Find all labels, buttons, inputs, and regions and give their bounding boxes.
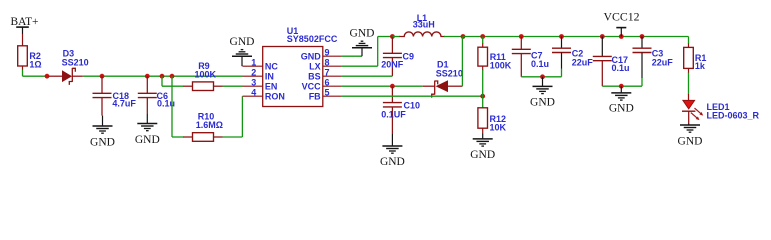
LED LED1 — [682, 94, 760, 124]
junction C2 — [559, 34, 564, 39]
ground C6 — [135, 114, 160, 146]
svg-text:33uH: 33uH — [413, 20, 435, 30]
svg-text:3: 3 — [251, 77, 256, 87]
svg-text:GND: GND — [301, 52, 322, 62]
svg-text:100K: 100K — [195, 69, 217, 79]
junction C18 — [100, 74, 105, 79]
svg-text:1Ω: 1Ω — [29, 59, 41, 69]
svg-text:GND: GND — [380, 156, 405, 168]
junction ground C17/C3 — [619, 84, 624, 89]
resistor R2 — [18, 46, 42, 70]
svg-text:GND: GND — [90, 136, 115, 148]
junction R10 tap — [170, 74, 175, 79]
junction ground C7/C2 — [540, 74, 545, 79]
pin 8 LX — [309, 57, 342, 71]
svg-text:GND: GND — [350, 28, 375, 40]
svg-text:1k: 1k — [695, 61, 706, 71]
capacitor C7 — [512, 37, 549, 77]
wire R2 to D3 — [23, 70, 49, 77]
junction node R2/D3 — [45, 74, 50, 79]
wire input bus — [83, 75, 243, 77]
junction C3 — [640, 34, 645, 39]
svg-text:100K: 100K — [490, 60, 512, 70]
pin 7 BS — [308, 67, 342, 81]
ground C10 — [380, 134, 405, 168]
resistor R1 — [684, 44, 707, 74]
svg-text:LX: LX — [309, 62, 321, 72]
svg-text:7: 7 — [324, 67, 329, 77]
capacitor C10 — [381, 86, 420, 134]
svg-text:RON: RON — [265, 92, 285, 102]
wire LX to rail — [342, 37, 393, 67]
svg-text:GND: GND — [609, 103, 634, 115]
wire VCC row — [342, 85, 423, 87]
svg-text:NC: NC — [265, 62, 278, 72]
svg-text:0.1u: 0.1u — [612, 63, 630, 73]
capacitor C9 — [381, 37, 414, 77]
svg-text:SY8502FCC: SY8502FCC — [287, 34, 338, 44]
svg-text:22uF: 22uF — [572, 57, 594, 67]
svg-text:9: 9 — [324, 47, 329, 57]
svg-text:GND: GND — [135, 134, 160, 146]
capacitor C18 — [93, 76, 137, 115]
svg-text:10K: 10K — [490, 122, 507, 132]
svg-text:8: 8 — [324, 57, 329, 67]
ground C7/C2 — [530, 77, 555, 109]
pin 9 GND — [301, 47, 342, 61]
svg-text:SS210: SS210 — [436, 69, 463, 79]
wire bus to R9 — [162, 76, 184, 86]
wire C17 C3 ground row — [602, 85, 642, 87]
junction C17 — [600, 34, 605, 39]
junction C7 — [519, 34, 524, 39]
wire R1 to LED1 — [688, 73, 690, 95]
resistor R10 — [183, 111, 223, 141]
svg-text:VCC: VCC — [302, 82, 322, 92]
svg-text:5: 5 — [324, 87, 329, 97]
svg-text:4: 4 — [251, 87, 256, 97]
capacitor C17 — [593, 37, 630, 87]
pin 4 RON — [243, 87, 285, 101]
svg-text:BS: BS — [308, 72, 321, 82]
junction LX node — [390, 34, 395, 39]
junction FB node — [480, 94, 485, 99]
ground R12 — [470, 134, 495, 162]
svg-text:GND: GND — [678, 136, 703, 148]
svg-text:2: 2 — [251, 67, 256, 77]
wire FB row — [342, 95, 483, 97]
wire D1 to rail — [461, 37, 463, 87]
pin 6 VCC — [302, 77, 342, 91]
wire C7 C2 ground row — [521, 76, 561, 78]
capacitor C6 — [138, 76, 175, 114]
junction VCC12 — [619, 34, 624, 39]
wire rail to R1 — [688, 37, 690, 45]
svg-text:22uF: 22uF — [652, 57, 674, 67]
ground C17/C3 — [609, 86, 634, 114]
svg-text:4.7uF: 4.7uF — [112, 99, 136, 109]
svg-text:1.6MΩ: 1.6MΩ — [196, 120, 223, 130]
inductor L1 33uH — [392, 13, 463, 36]
svg-text:LED-0603_R: LED-0603_R — [707, 111, 760, 121]
svg-text:0.1u: 0.1u — [531, 59, 549, 69]
junction R11 — [480, 34, 485, 39]
wire BS to C9 — [342, 75, 393, 77]
pin 5 FB — [309, 87, 342, 101]
junction R9 tap — [160, 74, 165, 79]
junction C10 — [390, 84, 395, 89]
capacitor C3 — [633, 37, 674, 87]
resistor R9 — [184, 61, 223, 90]
resistor R11 — [478, 37, 512, 71]
diode D1 SS210 — [423, 60, 463, 98]
diode D3 SS210 — [49, 49, 89, 85]
wire R11 to FB — [482, 70, 484, 96]
ground C18 — [90, 116, 115, 149]
ground LED1 — [678, 124, 703, 148]
wire output rail — [463, 36, 689, 38]
svg-text:FB: FB — [309, 92, 321, 102]
pin 1 NC — [243, 57, 279, 71]
wire BAT+ to R2 — [22, 34, 24, 46]
svg-text:GND: GND — [470, 149, 495, 161]
wire R10 to pin RON — [223, 96, 243, 137]
resistor R12 — [478, 96, 507, 133]
pin 3 EN — [243, 77, 278, 91]
junction C6 — [145, 74, 150, 79]
power port VCC12 — [603, 10, 639, 37]
svg-text:0.1UF: 0.1UF — [381, 110, 406, 120]
svg-text:IN: IN — [265, 72, 274, 82]
ground port above U1 right — [350, 28, 375, 57]
wire pin9 to ground — [342, 55, 362, 57]
ground port above U1 left — [230, 36, 255, 56]
wire bus to R10 — [172, 76, 184, 137]
svg-text:GND: GND — [530, 97, 555, 109]
junction L1 output — [461, 34, 466, 39]
svg-text:VCC12: VCC12 — [603, 10, 639, 24]
svg-text:1: 1 — [251, 57, 256, 67]
svg-text:C10: C10 — [404, 101, 421, 111]
svg-text:SS210: SS210 — [62, 57, 89, 67]
svg-text:20NF: 20NF — [381, 60, 404, 70]
op-amp U1 SY8502FCC body — [263, 26, 338, 107]
svg-text:GND: GND — [230, 36, 255, 48]
wire R9 to pin EN — [223, 85, 243, 87]
wire GND to pin 1 — [241, 56, 243, 66]
svg-text:C9: C9 — [403, 52, 415, 62]
svg-text:EN: EN — [265, 82, 278, 92]
capacitor C2 — [552, 37, 593, 77]
pin 2 IN — [243, 67, 274, 81]
svg-text:6: 6 — [324, 77, 329, 87]
power port BAT+ — [11, 16, 39, 34]
